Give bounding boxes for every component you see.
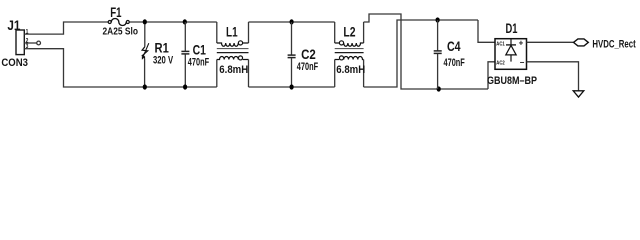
wire L1 to L2 (top rail) <box>249 21 335 23</box>
wire bridge minus output to ground <box>527 62 579 91</box>
svg-text:470nF: 470nF <box>444 57 466 69</box>
bridge rectifier D1 <box>495 39 527 70</box>
net name HVDC_Rect <box>592 38 636 51</box>
D1 pin label minus <box>520 58 525 67</box>
junction node C4 bottom <box>437 86 441 91</box>
C1 refdes label <box>193 42 206 58</box>
D1 pin label AC1 <box>496 41 505 48</box>
off-page port HVDC_Rect <box>574 39 589 46</box>
F1 refdes label <box>110 4 122 20</box>
R1 refdes label <box>155 40 169 55</box>
J1 pin number 1 <box>26 29 29 36</box>
capacitor C4 <box>434 20 442 89</box>
svg-text:AC1: AC1 <box>496 41 505 48</box>
wire L1 to L2 (bottom rail) <box>249 86 335 88</box>
wire J1 pin1 to fuse <box>29 22 108 34</box>
J1 pin number 2 <box>26 38 29 45</box>
junction node C2 bottom <box>290 84 294 89</box>
svg-text:2A25 Slo: 2A25 Slo <box>103 26 139 38</box>
F1 value label 2A25 Slo <box>103 26 139 38</box>
svg-text:L2: L2 <box>343 24 355 40</box>
svg-text:470nF: 470nF <box>297 61 319 73</box>
common-mode choke L2 <box>335 22 364 87</box>
ground <box>573 91 584 97</box>
svg-text:3: 3 <box>26 44 29 51</box>
L2 value label 6.8mH <box>336 64 365 76</box>
junction node R1 bottom <box>143 84 147 89</box>
svg-text:6.8mH: 6.8mH <box>219 65 248 77</box>
svg-text:1: 1 <box>26 29 29 36</box>
C4 value label 470nF <box>444 57 466 69</box>
J1 refdes label <box>7 17 20 33</box>
svg-text:L1: L1 <box>226 24 238 40</box>
junction node C1 top <box>183 19 187 24</box>
common-mode choke L1 <box>217 22 249 87</box>
D1 pin label plus <box>519 38 524 47</box>
wire bottom rail to bridge AC2 <box>488 62 495 89</box>
junction node R1 top <box>143 19 147 24</box>
wire top rail to bridge AC1 <box>478 20 495 42</box>
svg-text:320 V: 320 V <box>153 54 174 67</box>
D1 value label GBU8M-BP <box>487 75 537 87</box>
capacitor C2 <box>288 22 296 87</box>
capacitor C1 <box>181 22 189 87</box>
crossover wire L2 top output to bottom rail <box>364 14 488 89</box>
svg-text:−: − <box>520 58 525 67</box>
wire fuse to L1 (top rail) <box>130 21 217 23</box>
R1 value label 320 V <box>153 54 174 67</box>
svg-text:AC2: AC2 <box>496 60 505 67</box>
varistor R1 <box>142 24 149 87</box>
svg-text:F1: F1 <box>110 4 122 20</box>
D1 pin label AC2 <box>496 60 505 67</box>
svg-text:C4: C4 <box>447 39 461 55</box>
svg-text:R1: R1 <box>155 40 169 55</box>
C1 value label 470nF <box>188 56 210 68</box>
L1 value label 6.8mH <box>219 65 248 77</box>
C4 refdes label <box>447 39 461 55</box>
svg-text:+: + <box>519 38 524 47</box>
svg-text:J1: J1 <box>7 17 20 33</box>
wire J1 pin3 to bottom rail <box>29 49 217 87</box>
wire bridge plus output <box>527 41 574 43</box>
J1 pin number 3 <box>26 44 29 51</box>
J1 value label CON3 <box>1 57 28 69</box>
svg-text:6.8mH: 6.8mH <box>336 64 365 76</box>
C2 refdes label <box>301 47 316 62</box>
fuse F1 <box>108 19 129 26</box>
L1 refdes label <box>226 24 238 40</box>
svg-text:470nF: 470nF <box>188 56 210 68</box>
svg-text:HVDC_Rect: HVDC_Rect <box>592 38 636 51</box>
C2 value label 470nF <box>297 61 319 73</box>
crossover wire L2 bottom output to top rail <box>364 20 478 87</box>
connector J1 <box>16 30 37 55</box>
no-connect circle on J1 pin 2 <box>37 41 41 45</box>
junction node C1 bottom <box>183 84 187 89</box>
D1 refdes label <box>506 20 518 36</box>
svg-text:CON3: CON3 <box>1 57 28 69</box>
svg-text:GBU8M–BP: GBU8M–BP <box>487 75 537 87</box>
svg-text:D1: D1 <box>506 20 518 36</box>
junction node C2 top <box>290 19 294 24</box>
L2 refdes label <box>343 24 355 40</box>
junction node C4 top <box>436 17 440 22</box>
